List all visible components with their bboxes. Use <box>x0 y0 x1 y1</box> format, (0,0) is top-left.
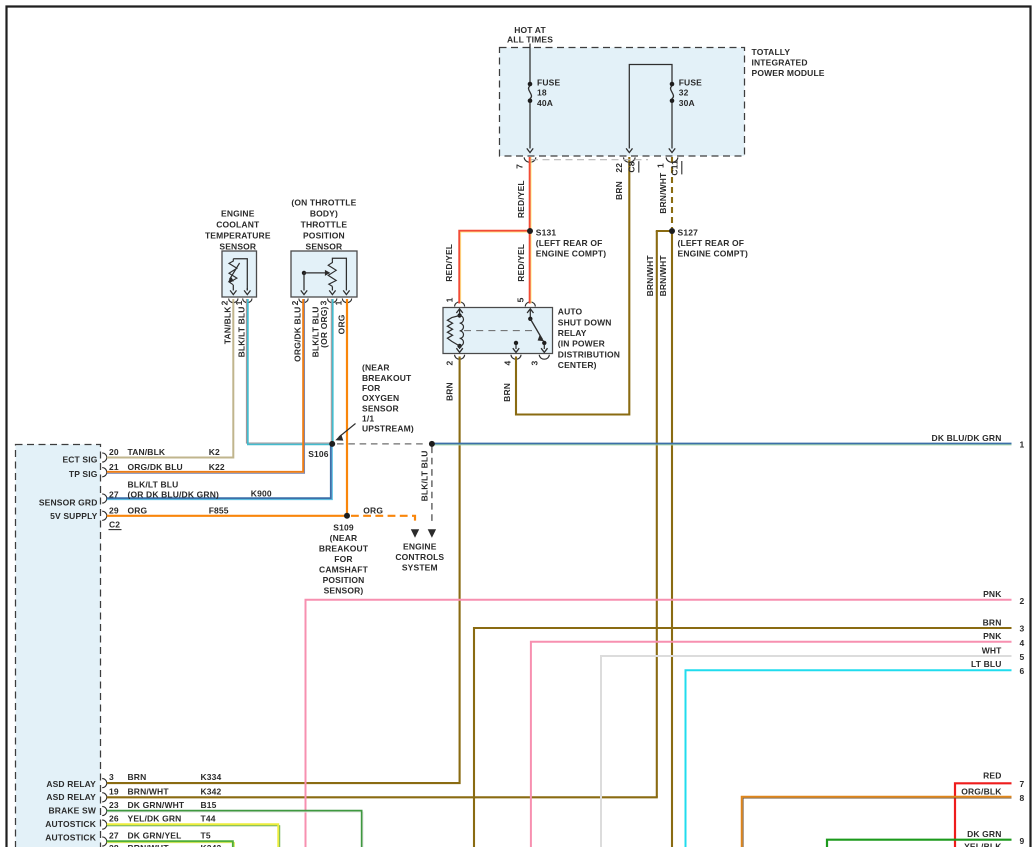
svg-text:3: 3 <box>530 361 540 366</box>
svg-text:(ON THROTTLE: (ON THROTTLE <box>291 198 356 208</box>
svg-text:B15: B15 <box>201 800 217 810</box>
svg-text:ASD RELAY: ASD RELAY <box>46 792 96 802</box>
svg-text:BRN/WHT: BRN/WHT <box>658 255 668 297</box>
svg-text:1: 1 <box>655 163 665 168</box>
svg-text:1: 1 <box>234 300 244 305</box>
svg-text:ENGINE: ENGINE <box>221 209 255 219</box>
svg-text:K342: K342 <box>201 786 222 796</box>
svg-text:(LEFT REAR OF: (LEFT REAR OF <box>536 238 603 248</box>
svg-text:DK GRN/YEL: DK GRN/YEL <box>128 831 182 841</box>
svg-text:SENSOR: SENSOR <box>362 403 399 413</box>
svg-text:POSITION: POSITION <box>323 575 365 585</box>
svg-text:(NEAR: (NEAR <box>330 533 358 543</box>
svg-text:RED/YEL: RED/YEL <box>444 244 454 282</box>
svg-text:DK GRN/WHT: DK GRN/WHT <box>128 800 185 810</box>
svg-text:CONTROLS: CONTROLS <box>395 552 444 562</box>
svg-text:4: 4 <box>1020 638 1025 648</box>
svg-text:SENSOR): SENSOR) <box>324 586 364 596</box>
svg-text:SYSTEM: SYSTEM <box>402 563 438 573</box>
svg-text:BODY): BODY) <box>310 209 338 219</box>
svg-text:C2: C2 <box>109 520 120 530</box>
svg-text:30A: 30A <box>679 98 695 108</box>
svg-text:BRN: BRN <box>614 181 624 200</box>
svg-text:FOR: FOR <box>362 383 380 393</box>
svg-text:S106: S106 <box>308 449 329 459</box>
svg-text:TOTALLY: TOTALLY <box>752 47 791 57</box>
svg-text:18: 18 <box>537 88 547 98</box>
svg-text:ORG: ORG <box>363 505 383 515</box>
svg-text:2: 2 <box>444 361 454 366</box>
svg-text:TAN/BLK: TAN/BLK <box>128 447 166 457</box>
svg-text:S109: S109 <box>333 523 354 533</box>
svg-text:(NEAR: (NEAR <box>362 363 390 373</box>
svg-text:1: 1 <box>333 300 343 305</box>
svg-text:POSITION: POSITION <box>303 230 345 240</box>
svg-text:K22: K22 <box>209 462 225 472</box>
svg-text:K2: K2 <box>209 447 220 457</box>
svg-text:ORG: ORG <box>336 314 346 334</box>
svg-text:BRN: BRN <box>983 617 1002 627</box>
svg-text:K242: K242 <box>201 843 222 847</box>
svg-text:2: 2 <box>1020 596 1025 606</box>
svg-text:PNK: PNK <box>983 589 1002 599</box>
svg-text:T5: T5 <box>201 831 211 841</box>
svg-text:BLK/LT BLU: BLK/LT BLU <box>237 307 247 358</box>
svg-text:BRAKE SW: BRAKE SW <box>49 806 97 816</box>
svg-text:6: 6 <box>1020 666 1025 676</box>
svg-text:FUSE: FUSE <box>537 77 560 87</box>
svg-text:ECT SIG: ECT SIG <box>62 454 97 464</box>
svg-text:OXYGEN: OXYGEN <box>362 393 399 403</box>
svg-text:RED/YEL: RED/YEL <box>516 180 526 218</box>
svg-text:AUTO: AUTO <box>558 307 583 317</box>
svg-text:BRN/WHT: BRN/WHT <box>128 843 170 847</box>
svg-text:UPSTREAM): UPSTREAM) <box>362 424 414 434</box>
svg-text:COOLANT: COOLANT <box>216 220 260 230</box>
svg-text:ALL TIMES: ALL TIMES <box>507 35 553 45</box>
svg-text:WHT: WHT <box>982 645 1002 655</box>
svg-text:AUTOSTICK: AUTOSTICK <box>45 832 96 842</box>
svg-text:ORG/DK BLU: ORG/DK BLU <box>293 307 303 362</box>
svg-text:RED: RED <box>983 771 1001 781</box>
svg-text:CENTER): CENTER) <box>558 360 597 370</box>
svg-text:C8: C8 <box>626 161 636 172</box>
svg-text:BRN: BRN <box>128 772 147 782</box>
svg-text:(OR ORG): (OR ORG) <box>319 306 329 347</box>
svg-text:DK GRN: DK GRN <box>967 829 1001 839</box>
svg-text:7: 7 <box>515 164 525 169</box>
svg-text:2: 2 <box>220 300 230 305</box>
svg-text:ASD RELAY: ASD RELAY <box>46 779 96 789</box>
svg-text:AUTOSTICK: AUTOSTICK <box>45 819 96 829</box>
svg-text:POWER MODULE: POWER MODULE <box>752 68 825 78</box>
svg-text:SENSOR: SENSOR <box>219 241 256 251</box>
svg-text:ENGINE: ENGINE <box>403 541 437 551</box>
svg-text:BLK/LT BLU: BLK/LT BLU <box>420 451 430 502</box>
svg-text:22: 22 <box>614 163 624 173</box>
svg-text:SENSOR GRD: SENSOR GRD <box>39 497 98 507</box>
svg-text:5V SUPPLY: 5V SUPPLY <box>50 511 98 521</box>
svg-text:YEL/BLK: YEL/BLK <box>964 842 1002 847</box>
svg-text:(IN POWER: (IN POWER <box>558 339 605 349</box>
svg-text:LT BLU: LT BLU <box>971 659 1001 669</box>
svg-text:YEL/DK GRN: YEL/DK GRN <box>128 814 182 824</box>
svg-text:32: 32 <box>679 88 689 98</box>
svg-text:7: 7 <box>1020 779 1025 789</box>
svg-text:ENGINE COMPT): ENGINE COMPT) <box>678 249 748 259</box>
svg-text:S131: S131 <box>536 227 557 237</box>
svg-text:BRN/WHT: BRN/WHT <box>658 172 668 214</box>
svg-text:RED/YEL: RED/YEL <box>516 244 526 282</box>
svg-text:27: 27 <box>109 490 119 500</box>
svg-text:3: 3 <box>319 300 329 305</box>
svg-text:27: 27 <box>109 831 119 841</box>
svg-text:K334: K334 <box>201 772 222 782</box>
svg-text:2: 2 <box>290 300 300 305</box>
svg-text:RELAY: RELAY <box>558 328 587 338</box>
svg-text:1: 1 <box>1020 439 1025 449</box>
svg-text:PNK: PNK <box>983 631 1002 641</box>
svg-text:ENGINE COMPT): ENGINE COMPT) <box>536 249 606 259</box>
svg-text:T44: T44 <box>201 814 216 824</box>
svg-text:5: 5 <box>1020 652 1025 662</box>
svg-text:26: 26 <box>109 814 119 824</box>
svg-text:8: 8 <box>1020 793 1025 803</box>
svg-text:BREAKOUT: BREAKOUT <box>319 544 369 554</box>
svg-text:BRN: BRN <box>444 382 454 401</box>
svg-text:3: 3 <box>1020 624 1025 634</box>
svg-text:BRN/WHT: BRN/WHT <box>645 255 655 297</box>
svg-text:BRN/WHT: BRN/WHT <box>128 786 170 796</box>
svg-text:20: 20 <box>109 447 119 457</box>
svg-text:F855: F855 <box>209 506 229 516</box>
svg-text:THROTTLE: THROTTLE <box>301 220 348 230</box>
svg-text:K900: K900 <box>251 489 272 499</box>
svg-text:23: 23 <box>109 800 119 810</box>
svg-text:ORG: ORG <box>128 506 148 516</box>
svg-text:(OR DK BLU/DK GRN): (OR DK BLU/DK GRN) <box>128 490 219 500</box>
svg-text:TAN/BLK: TAN/BLK <box>223 306 233 344</box>
svg-text:FOR: FOR <box>334 554 352 564</box>
svg-text:BRN: BRN <box>502 383 512 402</box>
svg-text:FUSE: FUSE <box>679 77 702 87</box>
svg-text:BREAKOUT: BREAKOUT <box>362 373 412 383</box>
svg-text:SHUT DOWN: SHUT DOWN <box>558 317 612 327</box>
svg-text:29: 29 <box>109 506 119 516</box>
svg-text:21: 21 <box>109 462 119 472</box>
svg-text:CAMSHAFT: CAMSHAFT <box>319 565 369 575</box>
svg-text:3: 3 <box>109 772 114 782</box>
svg-text:(LEFT REAR OF: (LEFT REAR OF <box>678 238 745 248</box>
svg-text:SENSOR: SENSOR <box>306 241 343 251</box>
svg-text:1: 1 <box>444 297 454 302</box>
svg-text:ORG/DK BLU: ORG/DK BLU <box>128 462 183 472</box>
svg-text:BLK/LT BLU: BLK/LT BLU <box>128 480 179 490</box>
svg-text:1/1: 1/1 <box>362 413 374 423</box>
svg-text:DK BLU/DK GRN: DK BLU/DK GRN <box>932 433 1002 443</box>
svg-text:TP SIG: TP SIG <box>69 469 98 479</box>
svg-text:40A: 40A <box>537 98 553 108</box>
svg-text:19: 19 <box>109 786 119 796</box>
svg-text:C11: C11 <box>669 160 679 176</box>
svg-text:5: 5 <box>516 297 526 302</box>
svg-text:TEMPERATURE: TEMPERATURE <box>205 230 271 240</box>
svg-text:ORG/BLK: ORG/BLK <box>961 787 1002 797</box>
svg-text:DISTRIBUTION: DISTRIBUTION <box>558 349 620 359</box>
svg-text:INTEGRATED: INTEGRATED <box>752 58 808 68</box>
svg-text:4: 4 <box>503 361 513 366</box>
svg-text:28: 28 <box>109 843 119 847</box>
svg-text:S127: S127 <box>678 227 699 237</box>
svg-text:9: 9 <box>1020 836 1025 846</box>
